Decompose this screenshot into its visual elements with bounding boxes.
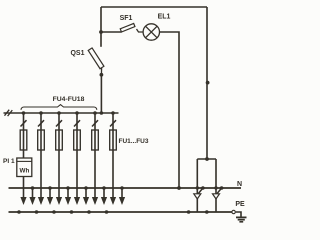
svg-text:FU1...FU3: FU1...FU3 [119,138,149,145]
N tap 2 [47,186,53,205]
fuse FU (col2) [38,130,45,150]
N tap 1 [29,186,35,205]
phase bus [4,112,119,114]
phase bus double slash [5,110,13,116]
connector circle PE end [232,210,235,213]
knife link 1 [194,186,205,199]
knife link 2 [213,186,224,199]
N bus [9,187,242,189]
wire bracket over knife links [197,158,216,160]
wire knife column left [196,159,198,212]
svg-text:FU4-FU18: FU4-FU18 [53,96,85,103]
wire left vertical to lamp junction [100,7,102,47]
fuse FU (col6) [110,130,117,150]
N tap 6 [119,186,125,205]
node PE dots left group [17,210,108,214]
feeder arrow (col2) [38,197,44,205]
node lamp drop on N bus [177,186,181,190]
feeder arrow (col4) [74,197,80,205]
node bracket center [205,157,209,161]
PE bus [9,211,232,213]
fuse FU (col4) [74,130,81,150]
fuse column 3 wire [58,113,60,199]
ground symbol [236,217,247,221]
fuse column 4 wire [76,113,78,199]
feeder arrow (col5) [92,197,98,205]
fuse FU (col5) [92,130,99,150]
fuse column 2 wire [40,113,42,199]
slash col1 [21,120,27,126]
node col1 bus dot [22,111,26,115]
switch SF1 blade [120,23,135,32]
brace FU4-FU18 [21,105,97,110]
feeder arrow (col6) [110,197,116,205]
wire knife column right [215,159,217,212]
wire right vertical main [206,7,208,159]
node PE dots right group [187,210,209,214]
node blob on right vertical [206,81,210,85]
wire lamp branch left [101,31,122,33]
svg-text:Wh: Wh [20,168,30,175]
PE stub to ground [236,212,241,217]
meter PI1 box [17,158,32,177]
node QS1 bottom contact [100,73,104,77]
fuse FU (col3) [56,130,63,150]
lamp EL1 [143,24,159,40]
fuse column 5 wire [94,113,96,199]
N tap 5 [101,186,107,205]
fuse column 6 wire [112,113,114,199]
node QS1 on phase bus [100,111,104,115]
wire top horizontal [101,6,207,8]
fuse column 1 wire [23,113,25,158]
N tap 4 [83,186,89,205]
svg-text:SF1: SF1 [120,15,133,22]
meter PI1 inner line [17,160,32,162]
QS1 wire below [100,75,102,113]
svg-text:PI 1: PI 1 [3,158,15,165]
svg-text:EL1: EL1 [158,14,171,21]
feeder arrow (col1) [20,197,26,205]
fuse FU (col1) [20,130,27,150]
svg-text:QS1: QS1 [70,50,84,57]
svg-text:N: N [237,181,242,188]
wire meter out + arrow [23,177,25,200]
feeder arrow (col3) [56,197,62,205]
svg-text:PE: PE [235,201,245,208]
node junction lamp branch [99,30,103,34]
wire lamp to down corner [160,32,180,188]
breaker QS1 blade [100,68,102,75]
N tap 3 [65,186,71,205]
wire SF1 to lamp [137,29,144,32]
